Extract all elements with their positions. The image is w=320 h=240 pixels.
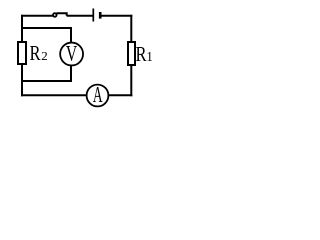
battery long plate <box>92 9 94 22</box>
wire: top side, switch to battery <box>67 15 94 17</box>
wire: left side vertical <box>21 15 23 97</box>
ammeter A <box>87 85 109 107</box>
label V on voltmeter face <box>66 46 77 61</box>
label R1 subscript 1 <box>148 52 152 61</box>
wire: top side, battery to right corner <box>100 15 132 17</box>
resistor R2 <box>18 42 26 64</box>
wire: voltmeter branch top <box>21 27 71 44</box>
voltmeter U=V <box>60 43 83 66</box>
label R1 letter R <box>136 47 146 61</box>
wire: top side, corner to switch pivot <box>21 15 53 17</box>
switch S pivot <box>53 13 57 17</box>
wire: voltmeter branch bottom <box>21 64 71 82</box>
wire: right side vertical <box>130 15 132 97</box>
battery short plate <box>99 12 102 19</box>
switch S blade <box>56 13 66 16</box>
label R2 subscript 2 <box>42 52 47 60</box>
label A on ammeter face <box>93 87 103 102</box>
label R2 letter R <box>30 46 40 60</box>
resistor R1 <box>128 42 135 65</box>
wire: bottom side <box>21 94 132 96</box>
